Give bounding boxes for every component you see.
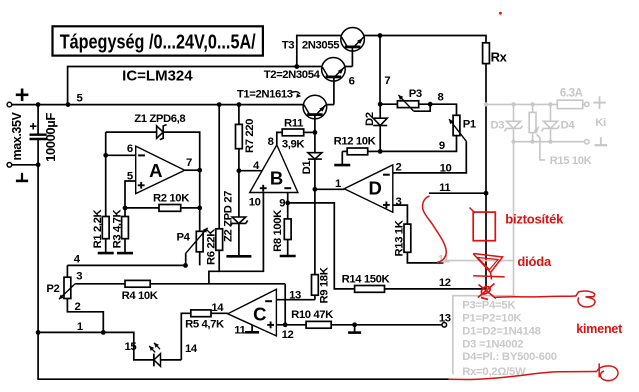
svg-text:P2: P2 — [46, 283, 59, 295]
wire to T2 collector — [297, 66, 322, 68]
resistor R1 2,2K — [102, 217, 109, 239]
input terminal + — [7, 102, 12, 107]
wire rail 5 (+raw) — [12, 104, 304, 106]
junction A output — [197, 168, 202, 173]
wire pin12 to R10 — [285, 324, 306, 326]
svg-text:R2 10K: R2 10K — [153, 193, 190, 205]
wire T2 emitter to T3 base — [345, 66, 353, 68]
ground R3 — [124, 239, 126, 253]
junction D1/R9/pin1 — [313, 187, 318, 192]
wire pin9 to R14 — [288, 203, 355, 289]
svg-text:D3: D3 — [490, 119, 504, 131]
wire P3 wiper to node 8 — [414, 104, 431, 111]
wire node to D pin1 — [315, 188, 344, 190]
svg-text:R5 4,7K: R5 4,7K — [185, 318, 225, 330]
transistor T3 2N3055 — [341, 28, 365, 52]
resistor R14 150K — [355, 286, 385, 293]
red dot top — [499, 12, 502, 15]
wire D pin3 to R13 — [393, 205, 408, 224]
capacitor 10000uF plates — [30, 133, 47, 135]
svg-text:B: B — [270, 167, 283, 188]
wire to T3 collector — [297, 36, 341, 67]
svg-text:14: 14 — [185, 343, 198, 355]
svg-text:1: 1 — [77, 321, 83, 333]
junction cap top — [36, 102, 41, 107]
potentiometer P3 wiper arrow — [398, 95, 413, 111]
potentiometer P4 body — [196, 231, 203, 252]
svg-text:3: 3 — [396, 196, 402, 208]
junction rail/R7 — [237, 102, 242, 107]
svg-text:11: 11 — [234, 324, 245, 336]
svg-text:R11: R11 — [284, 118, 303, 130]
wire D2 top lead — [379, 104, 381, 118]
svg-text:D2: D2 — [364, 112, 376, 126]
op-amp U1B — [250, 145, 298, 193]
ground R1 — [105, 239, 107, 253]
resistor R9 18K — [312, 275, 319, 296]
svg-text:D: D — [369, 178, 382, 199]
ground R10 — [354, 325, 356, 333]
svg-text:6.3A: 6.3A — [560, 88, 583, 100]
junction R10/ground — [352, 322, 357, 327]
wire R4 to pin12 branch — [150, 283, 285, 285]
wire node 3 / P2 wiper to R4 — [75, 283, 125, 285]
svg-text:R14 150K: R14 150K — [342, 273, 391, 285]
wire negative rail — [38, 165, 449, 379]
wire R6 top lead — [218, 105, 220, 229]
wire R5 to LED (wire 14) — [181, 313, 191, 360]
svg-text:R3 4,7K: R3 4,7K — [112, 208, 124, 248]
wire A output pin 7 — [185, 169, 200, 171]
wire A pin5 to R3/R2 — [125, 181, 136, 217]
wire Rx to node 11 — [485, 64, 487, 194]
wire jog to node 3 — [209, 271, 219, 284]
svg-text:max.35V: max.35V — [10, 111, 24, 160]
svg-text:Z2 ZPD 27: Z2 ZPD 27 — [223, 191, 235, 242]
wire R7 top lead — [238, 105, 240, 125]
wire to A pin 6 — [106, 154, 136, 156]
wire collector rail via IC label — [68, 67, 297, 105]
junction node 7 top — [378, 33, 383, 38]
red scribble terminal upper — [576, 291, 596, 307]
resistor R3 4,7K — [122, 217, 129, 239]
wire C pin12 — [276, 324, 285, 326]
grey zener D4 symbol — [544, 121, 558, 128]
svg-text:T1=2N1613: T1=2N1613 — [237, 88, 293, 100]
svg-text:10000µF: 10000µF — [43, 113, 58, 162]
grey junction dots — [484, 102, 488, 106]
wire LED to node 14 — [161, 359, 182, 361]
capacitor 10000uF leads — [37, 105, 39, 135]
junction pin5/R2/R3 — [123, 206, 128, 211]
wire T3 base lead — [351, 47, 353, 67]
svg-text:R15 10K: R15 10K — [550, 155, 593, 167]
junction P4 wiper/node4 — [183, 263, 188, 268]
red scribble terminal lower — [597, 363, 618, 380]
junction node2/node1 — [101, 330, 106, 335]
ground R8 — [287, 240, 289, 257]
svg-text:5: 5 — [77, 93, 83, 105]
junction B pin4 — [237, 168, 242, 173]
potentiometer P2 wiper arrow — [59, 284, 75, 300]
wire node 1 to LED — [38, 332, 154, 360]
svg-text:biztosíték: biztosíték — [505, 212, 564, 227]
wire R2 to feedback column — [181, 207, 200, 209]
op-amp U1C — [228, 289, 277, 336]
potentiometer P2 body — [64, 277, 71, 298]
svg-text:11: 11 — [439, 182, 450, 194]
wire R9 bottom lead — [314, 295, 316, 300]
wire node 11 — [429, 192, 486, 194]
zener Z2 symbol — [232, 217, 246, 223]
svg-text:R13 1K: R13 1K — [393, 219, 405, 256]
svg-text:dióda: dióda — [517, 254, 552, 269]
wire D2 to R12 node — [379, 126, 381, 152]
svg-text:P1: P1 — [463, 119, 476, 131]
wire B pin8 to R11 — [277, 132, 283, 145]
wire P4 wiper lead — [185, 253, 187, 265]
wire minus terminal to capacitor — [12, 164, 38, 166]
resistor R8 100K — [284, 219, 291, 240]
svg-text:P3: P3 — [409, 88, 422, 100]
wire R5 to C pin14 — [211, 312, 228, 314]
junction pin12/wire3 branch — [283, 322, 288, 327]
potentiometer P1 wiper arrow — [449, 119, 467, 142]
svg-text:Tápegység /0...24V,0...5A/: Tápegység /0...24V,0...5A/ — [60, 31, 256, 54]
wire node7 to P3 — [380, 103, 397, 105]
svg-text:9: 9 — [439, 140, 445, 152]
wire Z1 left leg — [105, 132, 107, 155]
svg-text:kimenet: kimenet — [576, 322, 623, 336]
ground C pin11 — [251, 325, 253, 333]
grey zener D3 symbol — [507, 121, 521, 128]
svg-text:9: 9 — [279, 197, 285, 209]
svg-text:D4: D4 — [561, 119, 576, 131]
potentiometer P4 wiper arrow — [186, 228, 208, 254]
capacitor polarity plus — [30, 125, 37, 127]
svg-text:8: 8 — [437, 92, 443, 104]
wire Rx line down to node 12 — [485, 193, 487, 289]
svg-text:7: 7 — [384, 75, 390, 87]
junction node 8 — [428, 102, 433, 107]
svg-text:D4=Pl.: BY500-600: D4=Pl.: BY500-600 — [462, 351, 557, 363]
red fuse symbol (biztositek) — [473, 212, 495, 241]
wire R8 top lead — [287, 203, 289, 219]
wire gnd to R12 — [342, 150, 347, 152]
red junction scribble at node 12 — [478, 284, 496, 300]
wire R3 node to R2 — [125, 207, 159, 209]
op-amp U1A — [136, 146, 185, 194]
junction node 7/P3/D2 — [378, 102, 383, 107]
red wire to kimenet upper — [495, 296, 576, 298]
wire R7 to Z2 — [238, 149, 240, 217]
svg-text:3,9K: 3,9K — [282, 139, 306, 151]
red diode symbol (dioda) — [473, 254, 502, 273]
resistor Rx — [483, 43, 490, 64]
svg-text:R8 100K: R8 100K — [272, 209, 284, 252]
resistor R2 10K — [159, 205, 181, 212]
svg-text:1: 1 — [335, 178, 341, 190]
title box — [53, 26, 263, 55]
wire R12 to node — [368, 150, 381, 152]
LED indicator — [153, 354, 155, 367]
svg-text:D1=D2=1N4148: D1=D2=1N4148 — [462, 325, 540, 337]
junction pin9/R8 — [285, 201, 290, 206]
svg-text:R6 22K: R6 22K — [206, 228, 218, 265]
resistor R6 22K — [216, 229, 223, 251]
svg-text:Ki: Ki — [595, 117, 606, 129]
zener Z1 ZPD6,8 — [157, 126, 164, 138]
junction R2/P4 column — [197, 206, 202, 211]
junction T2/T3 collector — [294, 64, 299, 69]
wire R10 to terminal 13 — [331, 324, 444, 326]
wire R11 to T1 base — [304, 131, 315, 133]
wire P2 bottom node 2 — [67, 299, 103, 333]
wire node 7 vertical — [379, 36, 381, 105]
junction pin6 node — [103, 153, 108, 158]
svg-text:14: 14 — [211, 302, 224, 314]
svg-text:7: 7 — [186, 157, 192, 169]
svg-text:12: 12 — [282, 329, 294, 341]
wire Z1 to A output — [163, 132, 200, 170]
op-amp U1D — [344, 165, 393, 212]
wire P4 bottom lead — [199, 252, 201, 266]
wire P2 top lead — [66, 265, 68, 277]
diode D2 — [373, 118, 387, 125]
svg-text:R12 10K: R12 10K — [334, 136, 377, 148]
svg-text:2: 2 — [75, 301, 81, 313]
wire node 12 — [384, 288, 486, 290]
wire node 9 to P1 bottom — [380, 136, 456, 152]
svg-text:12: 12 — [439, 277, 451, 289]
wire T3 emitter rail to Rx — [364, 36, 486, 43]
junction rail/wire1 — [36, 330, 41, 335]
svg-text:6: 6 — [349, 75, 355, 87]
resistor R13 1K — [404, 224, 411, 252]
wire T1 emitter to T2 base — [326, 104, 334, 106]
wire A output down to P4 — [199, 170, 201, 231]
transistor T2 2N3054 — [322, 58, 346, 82]
grey output sub-circuit (faded) — [444, 96, 607, 374]
svg-text:10: 10 — [440, 163, 452, 175]
wire R13 bottom node 11 stub — [407, 252, 443, 263]
junction node 11/Rx line — [484, 191, 489, 196]
svg-text:Rx: Rx — [491, 50, 508, 65]
wire P3 to P1 top (node 8) — [419, 104, 457, 115]
wire R1 top lead — [105, 155, 107, 216]
svg-text:A: A — [149, 160, 162, 181]
svg-text:6: 6 — [127, 143, 133, 155]
minus terminal symbol — [21, 173, 23, 181]
svg-text:T3: T3 — [282, 40, 295, 52]
resistor R10 47K — [306, 321, 331, 328]
resistor R5 4,7K — [191, 310, 211, 317]
svg-text:R9 18K: R9 18K — [319, 266, 331, 303]
svg-text:T2=2N3054: T2=2N3054 — [264, 69, 321, 81]
red curve node11 to R13 wire — [423, 196, 447, 263]
svg-text:15: 15 — [125, 341, 137, 353]
svg-text:R4 10K: R4 10K — [122, 290, 159, 302]
resistor R11 3,9K — [282, 129, 304, 136]
svg-text:P1=P2=10K: P1=P2=10K — [462, 313, 521, 325]
ground R12 — [341, 151, 343, 165]
svg-text:D3 =1N4002: D3 =1N4002 — [462, 338, 523, 350]
potentiometer P1 body — [453, 115, 460, 135]
svg-text:8: 8 — [268, 136, 274, 148]
junction rail/collector loop — [66, 102, 71, 107]
svg-text:10: 10 — [249, 196, 261, 208]
svg-text:2N3055: 2N3055 — [302, 40, 339, 52]
svg-text:P4: P4 — [176, 232, 190, 244]
svg-text:3: 3 — [76, 271, 82, 283]
junction R12/D2/wire9 — [378, 149, 383, 154]
wire D1 top lead — [314, 132, 316, 152]
resistor R7 220 — [236, 124, 243, 148]
wire node3 branch down to pin12 — [284, 284, 286, 325]
wire D1 to node — [314, 159, 316, 189]
ground Z2 — [238, 223, 240, 256]
plus symbol input — [16, 94, 29, 97]
svg-text:P3=P4=5K: P3=P4=5K — [462, 300, 515, 312]
wire to B pin 4 — [239, 170, 262, 172]
wire node 4 — [67, 264, 185, 266]
potentiometer P3 body — [397, 101, 418, 108]
resistor R4 10K — [125, 280, 150, 287]
transistor T1 2N1613 — [303, 95, 327, 119]
svg-text:R10 47K: R10 47K — [291, 309, 334, 321]
wire R6 bottom to B pin 10 — [219, 193, 263, 272]
label pointer arrow to T1 — [292, 92, 300, 94]
resistor R12 10K — [347, 148, 368, 155]
svg-text:R1 2,2K: R1 2,2K — [92, 208, 104, 248]
diode D1 — [308, 153, 322, 159]
junction cap bottom — [36, 162, 41, 167]
svg-text:IC=LM324: IC=LM324 — [122, 67, 193, 84]
svg-text:Z1 ZPD6,8: Z1 ZPD6,8 — [134, 113, 185, 125]
junction R11/T1 base/D1 — [313, 130, 318, 135]
svg-text:13: 13 — [439, 313, 451, 325]
LED arrows — [149, 346, 155, 352]
wire down to R9 — [314, 189, 316, 274]
svg-text:C: C — [253, 304, 266, 325]
wire C pin13 to R9 — [276, 299, 315, 301]
wire D pin2 to P1 wiper (node 10) — [393, 142, 467, 173]
wire T2 base lead — [333, 77, 335, 105]
svg-text:R7 220: R7 220 — [244, 119, 256, 153]
input terminal - — [7, 163, 12, 168]
terminal node 13 — [442, 323, 447, 328]
svg-text:2: 2 — [396, 162, 402, 174]
wire to Z1 — [106, 131, 157, 133]
wire T1 base lead to R11/D1 — [314, 115, 316, 133]
junction rail/R6 — [217, 102, 222, 107]
red wire to kimenet lower — [449, 372, 597, 380]
svg-text:D1: D1 — [301, 161, 313, 175]
wire B pin9 lead — [287, 193, 289, 203]
